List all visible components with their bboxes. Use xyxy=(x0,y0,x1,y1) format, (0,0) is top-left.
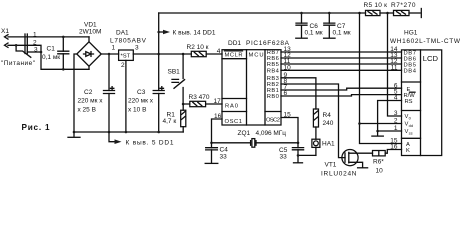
svg-text:ZQ1: ZQ1 xyxy=(238,130,251,137)
svg-text:WH1602L-TML-CTW: WH1602L-TML-CTW xyxy=(390,38,461,45)
svg-text:0,1 мк: 0,1 мк xyxy=(305,30,323,37)
svg-text:C2: C2 xyxy=(84,89,93,96)
svg-text:LCD: LCD xyxy=(423,54,439,63)
svg-text:C4: C4 xyxy=(220,147,229,154)
svg-text:K: K xyxy=(406,148,410,154)
svg-text:MCLR: MCLR xyxy=(225,53,243,59)
svg-text:11: 11 xyxy=(391,64,398,71)
svg-text:1: 1 xyxy=(394,125,398,132)
svg-text:OSC1: OSC1 xyxy=(225,119,243,125)
svg-text:RS: RS xyxy=(405,99,413,105)
svg-text:4,096 МГц: 4,096 МГц xyxy=(256,130,287,137)
svg-text:17: 17 xyxy=(214,98,222,105)
svg-text:RB4: RB4 xyxy=(267,69,280,75)
svg-text:OSC2: OSC2 xyxy=(266,118,280,124)
svg-text:0,1 мк: 0,1 мк xyxy=(42,54,60,61)
svg-text:RB3: RB3 xyxy=(267,76,279,82)
svg-text:DB4: DB4 xyxy=(404,69,417,75)
svg-text:1: 1 xyxy=(112,44,116,51)
svg-text:MCU: MCU xyxy=(249,53,264,59)
svg-text:dd: dd xyxy=(409,123,413,128)
svg-text:R5 10 к: R5 10 к xyxy=(364,2,388,9)
svg-text:16: 16 xyxy=(390,144,398,151)
svg-text:IRLU024N: IRLU024N xyxy=(321,171,357,178)
svg-text:3: 3 xyxy=(135,44,139,51)
svg-text:R2 10 к: R2 10 к xyxy=(187,44,209,51)
svg-text:0,1 мк: 0,1 мк xyxy=(333,30,351,37)
svg-text:L7805ABV: L7805ABV xyxy=(110,38,147,45)
svg-text:R3 470: R3 470 xyxy=(189,94,210,101)
svg-text:ss: ss xyxy=(409,131,413,136)
svg-text:3: 3 xyxy=(34,47,38,54)
svg-text:К выв. 14 DD1: К выв. 14 DD1 xyxy=(173,30,216,37)
svg-text:33: 33 xyxy=(220,154,228,161)
svg-text:RB5: RB5 xyxy=(267,62,279,68)
svg-text:3: 3 xyxy=(394,110,398,117)
svg-text:HG1: HG1 xyxy=(404,30,418,37)
svg-text:DA1: DA1 xyxy=(116,30,129,37)
svg-text:16: 16 xyxy=(214,113,222,120)
svg-text:VT1: VT1 xyxy=(325,162,337,169)
svg-text:Рис. 1: Рис. 1 xyxy=(22,123,50,132)
svg-text:SB1: SB1 xyxy=(168,68,181,75)
svg-text:C1: C1 xyxy=(47,45,56,52)
svg-text:4: 4 xyxy=(217,48,221,55)
svg-text:x 10 В: x 10 В xyxy=(128,106,146,113)
svg-text:R4: R4 xyxy=(323,112,332,119)
svg-text:4: 4 xyxy=(394,95,398,102)
svg-text:1: 1 xyxy=(33,31,37,38)
svg-text:10: 10 xyxy=(284,64,292,71)
svg-text:"Питание": "Питание" xyxy=(1,60,36,67)
svg-text:R6*: R6* xyxy=(373,159,384,166)
svg-text:К выв. 5 DD1: К выв. 5 DD1 xyxy=(126,139,174,146)
svg-text:2: 2 xyxy=(394,118,398,125)
svg-text:DD1: DD1 xyxy=(228,40,241,47)
svg-text:C3: C3 xyxy=(137,89,146,96)
svg-text:10: 10 xyxy=(376,168,384,175)
svg-text:x 25 В: x 25 В xyxy=(78,106,96,113)
svg-text:2W10M: 2W10M xyxy=(79,28,101,35)
svg-text:220 мк x: 220 мк x xyxy=(128,98,154,105)
svg-text:2: 2 xyxy=(33,39,37,46)
svg-text:33: 33 xyxy=(280,154,288,161)
svg-text:DB5: DB5 xyxy=(404,62,417,68)
svg-text:RB0: RB0 xyxy=(267,94,279,100)
svg-text:RA0: RA0 xyxy=(225,104,238,110)
svg-text:R7*270: R7*270 xyxy=(391,2,416,9)
svg-text:HA1: HA1 xyxy=(322,141,335,148)
svg-text:220 мк x: 220 мк x xyxy=(78,98,104,105)
svg-text:240: 240 xyxy=(323,120,334,127)
svg-text:2: 2 xyxy=(121,62,125,69)
svg-text:*ST: *ST xyxy=(121,54,131,60)
svg-text:4,7 к: 4,7 к xyxy=(163,118,177,125)
